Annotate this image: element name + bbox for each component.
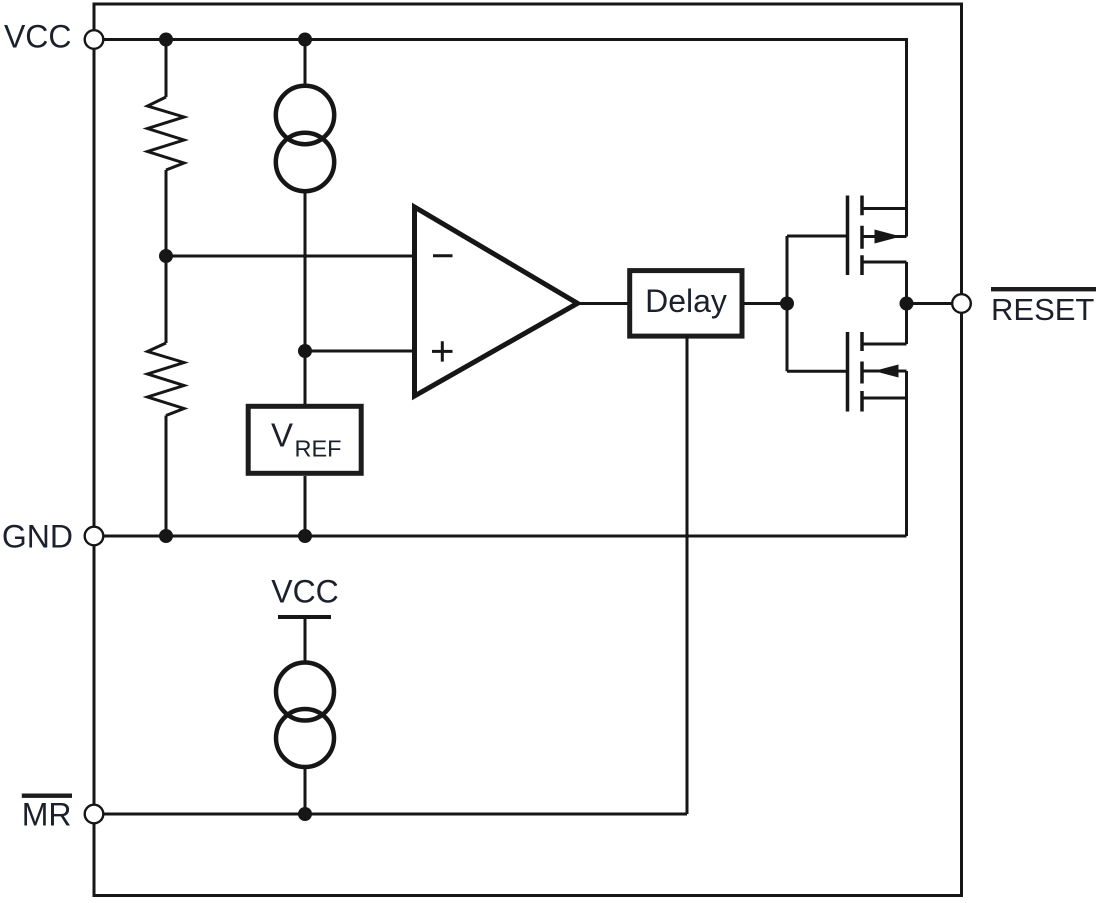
node junction MR-I2 <box>298 807 312 821</box>
wire MR current source top <box>304 617 307 663</box>
wire Delay to MR vertical <box>686 336 689 814</box>
wire gate node vertical <box>786 236 789 371</box>
wire non-inverting input <box>305 350 415 353</box>
transistor Q2 body arrow <box>874 365 899 378</box>
pin RESET <box>952 294 971 313</box>
wire inverting input node <box>166 255 415 258</box>
wire MR rail <box>96 813 687 816</box>
node junction VREF-plus <box>298 344 312 358</box>
current source I1 <box>276 86 334 191</box>
pin VCC <box>85 30 104 49</box>
resistor R1 <box>148 97 185 170</box>
node junction VCC-I1 <box>298 33 312 47</box>
wire source rail lower <box>905 371 908 536</box>
wire current source top <box>304 40 307 87</box>
wire resistor branch top <box>165 40 168 98</box>
node junction divider <box>159 249 173 263</box>
transistor Q1 gate bar <box>846 196 850 276</box>
svg-text:VCC: VCC <box>271 574 339 610</box>
transistor Q1 channel <box>860 196 864 276</box>
wire MR current source bottom <box>304 768 307 815</box>
transistor Q2 body line <box>862 370 907 373</box>
node junction GND-R2 <box>159 529 173 543</box>
wire op-amp output <box>578 302 630 305</box>
transistor Q2 gate bar <box>846 332 850 412</box>
VREF box U2 <box>248 406 361 473</box>
transistor Q2 channel <box>860 332 864 412</box>
svg-text:MR: MR <box>22 797 72 833</box>
wire RESET output <box>907 302 956 305</box>
transistor Q1 source line <box>862 261 907 264</box>
svg-text:GND: GND <box>2 519 73 555</box>
resistor R2 <box>148 343 185 416</box>
node junction GND-VREF <box>298 529 312 543</box>
transistor Q2 source line <box>862 397 907 400</box>
current source I2 <box>276 663 334 768</box>
VCC supply bar <box>278 615 331 619</box>
svg-text:REF: REF <box>295 436 342 462</box>
op-amp comparator U1 <box>415 207 578 396</box>
svg-text:V: V <box>271 417 293 454</box>
node junction VCC-R1 <box>159 33 173 47</box>
wire VREF to GND <box>304 476 307 536</box>
svg-text:RESET: RESET <box>991 292 1094 327</box>
wire divider bottom <box>165 416 168 537</box>
MR pin overline <box>22 794 72 798</box>
plus symbol <box>432 341 453 361</box>
wire current source to VREF <box>304 192 307 405</box>
svg-text:Delay: Delay <box>645 283 727 319</box>
wire PMOS gate <box>787 235 848 238</box>
IC boundary box <box>94 4 962 896</box>
transistor Q1 drain line <box>862 207 907 210</box>
wire NMOS gate <box>787 370 848 373</box>
Delay box U3 <box>630 271 742 337</box>
node junction gate <box>780 297 794 311</box>
RESET pin overline <box>991 287 1096 291</box>
wire GND rail <box>96 535 907 538</box>
wire Delay output <box>744 302 787 305</box>
node junction output <box>900 297 914 311</box>
transistor Q2 drain line <box>862 343 907 346</box>
wire divider middle <box>165 170 168 343</box>
wire VCC top rail <box>96 40 907 237</box>
minus symbol <box>433 254 453 257</box>
wire output rail middle <box>905 262 908 344</box>
svg-text:VCC: VCC <box>4 19 72 55</box>
transistor Q1 body arrow <box>875 230 902 244</box>
pin MR <box>85 805 104 824</box>
pin GND <box>85 527 104 546</box>
transistor Q1 body line <box>862 235 907 238</box>
